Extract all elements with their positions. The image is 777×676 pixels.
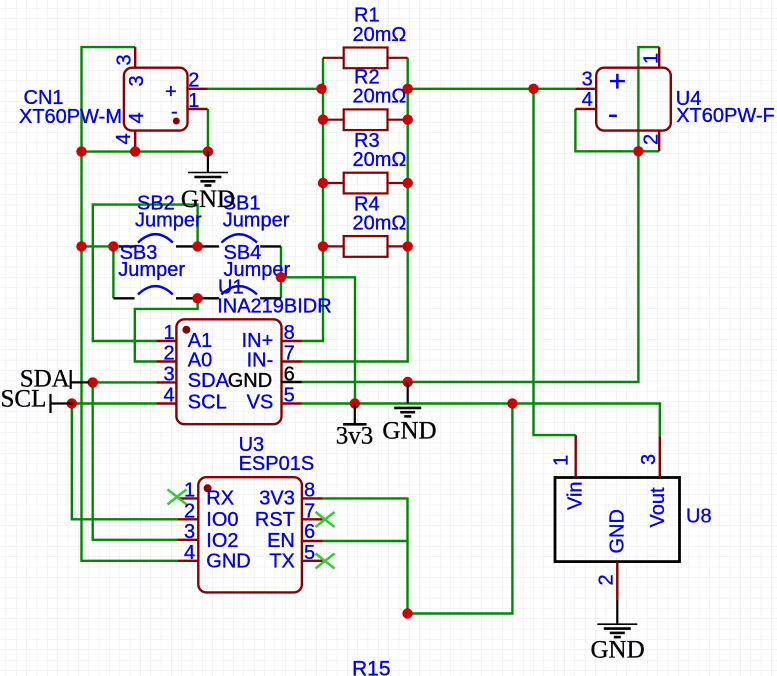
wire left shunt rail down to IN+ pin8 (302, 58, 323, 341)
svg-text:6: 6 (284, 363, 295, 385)
no-connect X on U3 pin1 RX (168, 489, 187, 504)
jumper SB3 (113, 242, 219, 298)
node SB row1 middle A1 (192, 241, 202, 251)
svg-text:3V3: 3V3 (259, 488, 295, 510)
svg-text:XT60PW-F: XT60PW-F (676, 105, 775, 127)
svg-text:R15: R15 (352, 658, 391, 676)
node R3 right (403, 178, 413, 188)
node R4 right (403, 241, 413, 251)
svg-text:RST: RST (255, 509, 295, 531)
svg-text:GND: GND (591, 637, 645, 664)
wire SB right to 3v3 down wire (281, 277, 355, 403)
svg-text:20mΩ: 20mΩ (353, 24, 407, 46)
node gnd flag (403, 377, 413, 387)
resistor R1 20mOhm (323, 5, 408, 68)
svg-text:GND: GND (228, 370, 272, 392)
wire CN1 gnd row (82, 150, 208, 152)
svg-text:Jumper: Jumper (118, 259, 185, 281)
svg-text:3: 3 (163, 363, 174, 385)
svg-text:SCL: SCL (188, 392, 227, 414)
ground flag top bar under VS wire (388, 403, 428, 405)
svg-text:GND: GND (181, 186, 235, 213)
wire GND row from U1 pin6 to U4 bottom (302, 151, 639, 382)
svg-text:20mΩ: 20mΩ (353, 149, 407, 171)
wire A0 net from SB row2 middle (135, 298, 198, 361)
net label SCL (1, 385, 74, 413)
connector CN1 XT60PW-M (19, 47, 208, 152)
wire CN1 pin2 to left shunt rail (208, 88, 322, 90)
svg-text:4: 4 (184, 542, 195, 564)
wire CN1 pin1 down to gnd row (207, 109, 209, 152)
pin 6 gnd stub black (282, 381, 302, 383)
node main+ left rail (316, 84, 326, 94)
svg-text:GND: GND (607, 509, 629, 553)
resistor R2 20mOhm (323, 67, 408, 130)
svg-text:3: 3 (126, 75, 148, 86)
node SDA (88, 377, 98, 387)
svg-text:TX: TX (269, 551, 295, 573)
node CN1 pin1 gnd (203, 146, 213, 156)
svg-text:+: + (609, 65, 627, 98)
svg-text:GND: GND (382, 417, 436, 444)
wire SDA net to pin3 and down to ESP IO2 (89, 382, 178, 539)
svg-text:1: 1 (641, 53, 663, 64)
node Vin tap (528, 84, 538, 94)
node R2 right (403, 115, 413, 125)
svg-text:EN: EN (267, 530, 295, 552)
node 3v3 flag (350, 398, 360, 408)
svg-text:-: - (171, 101, 178, 123)
svg-text:SCL: SCL (1, 385, 47, 412)
svg-text:3v3: 3v3 (336, 423, 374, 450)
node SCL (67, 398, 77, 408)
node SB left common (108, 241, 118, 251)
regulator U8 (551, 435, 712, 600)
svg-text:-: - (608, 98, 618, 131)
ground GND flag under U8 (597, 600, 637, 637)
node R2 left (318, 115, 328, 125)
node ESP 3v3 corner (402, 608, 412, 618)
node CN1 pin4 (130, 146, 140, 156)
svg-text:Vout: Vout (647, 487, 669, 527)
svg-text:U8: U8 (686, 505, 712, 527)
node R4 left (318, 241, 328, 251)
ground GND flag near U1 (394, 382, 421, 416)
node SB right common (276, 272, 286, 282)
jumper SB4 (221, 242, 290, 298)
resistor R4 20mOhm (323, 193, 408, 256)
wire VS 3v3 row from U1 pin5 to U8 Vout (302, 404, 660, 437)
no-connect X on U3 pin7 RST (316, 512, 335, 527)
wire right shunt rail down to IN- pin7 (302, 58, 408, 362)
svg-text:8: 8 (304, 479, 315, 501)
wire rail to SB2 pin (82, 245, 121, 247)
svg-text:2: 2 (641, 134, 663, 145)
node rail SB tap (76, 241, 86, 251)
svg-text:5: 5 (284, 385, 295, 407)
svg-text:6: 6 (304, 521, 315, 543)
svg-text:7: 7 (304, 500, 315, 522)
svg-text:20mΩ: 20mΩ (353, 86, 407, 108)
svg-text:3: 3 (114, 54, 136, 65)
node R3 left (318, 178, 328, 188)
wire ESP 3V3 pin8 down around to 3v3 net (323, 404, 513, 614)
node SB row2 middle A0 (192, 293, 202, 303)
svg-text:IO0: IO0 (206, 509, 238, 531)
power flag 3v3 (343, 404, 367, 425)
node gnd rail row (76, 146, 86, 156)
svg-text:A0: A0 (188, 349, 212, 371)
wire SCL net to pin4 and down to ESP IO0 (72, 404, 178, 520)
svg-text:8: 8 (284, 322, 295, 344)
wire SB2-left down to SB3-left (112, 246, 114, 298)
svg-text:4: 4 (113, 133, 135, 144)
resistor R3 20mOhm (323, 130, 408, 194)
wire A1 net from SB row1 middle (93, 205, 198, 341)
svg-text:2: 2 (163, 343, 174, 365)
svg-text:IN-: IN- (247, 349, 274, 371)
ic U3 ESP01S (178, 434, 323, 593)
no-connect X on U3 pin5 TX (316, 554, 335, 569)
net label SDA (20, 366, 89, 393)
svg-text:INA219BIDR: INA219BIDR (217, 296, 332, 318)
wire gnd left rail from CN1 pin3 down to ESP GND pin4 (82, 47, 178, 561)
svg-text:+: + (165, 81, 177, 103)
svg-text:Vin: Vin (565, 481, 587, 510)
wire right shunt rail to U4 pin3 with Vin tap (408, 88, 576, 90)
node 3v3 down tap (507, 398, 517, 408)
svg-text:1: 1 (551, 455, 573, 466)
svg-text:4: 4 (126, 112, 148, 123)
svg-text:XT60PW-M: XT60PW-M (19, 106, 122, 128)
node main+ right rail (403, 84, 413, 94)
svg-text:2: 2 (596, 574, 618, 585)
svg-text:4: 4 (582, 89, 593, 111)
wire Vin net from main line down to U8 pin1 (534, 89, 576, 435)
jumper SB1 (221, 192, 289, 246)
svg-text:ESP01S: ESP01S (239, 453, 315, 475)
svg-text:IO2: IO2 (206, 530, 238, 552)
node U4 bottom (633, 146, 643, 156)
wire U4 pin1 top loop (638, 47, 659, 151)
svg-text:1: 1 (163, 322, 174, 344)
svg-text:5: 5 (304, 542, 315, 564)
svg-text:3: 3 (184, 521, 195, 543)
svg-text:3: 3 (638, 454, 660, 465)
svg-text:3: 3 (582, 69, 593, 91)
svg-text:7: 7 (284, 343, 295, 365)
svg-text:GND: GND (206, 551, 250, 573)
svg-text:20mΩ: 20mΩ (353, 212, 407, 234)
svg-text:SDA: SDA (188, 370, 230, 392)
svg-text:4: 4 (163, 385, 174, 407)
svg-text:2: 2 (188, 69, 199, 91)
wire SB right common vertical (280, 246, 282, 298)
connector U4 XT60PW-F (575, 47, 774, 151)
wire ESP EN pin6 to 3v3 vertical (323, 540, 408, 542)
svg-text:RX: RX (206, 488, 234, 510)
ground GND flag near CN1 (188, 152, 228, 186)
jumper SB2 (119, 192, 219, 246)
svg-text:1: 1 (188, 90, 199, 112)
op-amp U1 INA219BIDR (156, 277, 331, 425)
wire U4 bottom row pin2 pin4 loop (575, 109, 659, 151)
svg-text:VS: VS (247, 392, 274, 414)
